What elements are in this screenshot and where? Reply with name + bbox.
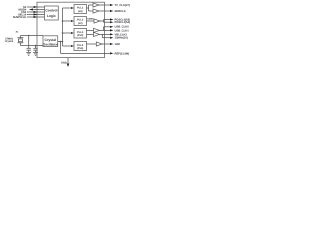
junction bus-PLL2: [62, 20, 64, 22]
buffer B1: [93, 3, 99, 7]
wire xtal lower: [21, 45, 44, 47]
wire ref riser: [60, 42, 62, 54]
arrow out row5: [110, 26, 113, 28]
arrow into PLL1: [71, 7, 74, 9]
control logic box U1: [45, 6, 59, 20]
ground for C1: [26, 51, 31, 53]
arrow out row7: [110, 33, 113, 35]
svg-text:GND: GND: [61, 61, 67, 64]
wire bus to PLL1: [63, 7, 73, 9]
buffer B6: [96, 42, 102, 46]
wire input SEL: [27, 14, 45, 16]
capacitor C2 lead: [35, 46, 37, 49]
PLL3 box: [74, 29, 87, 39]
wire xtal upper: [21, 35, 44, 37]
junction bus-PLL3: [62, 32, 64, 34]
svg-text:12M: 12M: [115, 43, 121, 46]
crystal oscillator box: [43, 36, 58, 47]
wire input FS0: [27, 11, 45, 13]
svg-text:Oscillator: Oscillator: [43, 42, 59, 46]
capacitor C2 plates: [33, 47, 37, 49]
arrow out row2: [110, 10, 113, 12]
capacitor C2 lower lead: [35, 50, 37, 52]
wire PLL1 out stub: [87, 7, 89, 9]
svg-text:54MHz: 54MHz: [87, 17, 95, 20]
text labels: [5, 4, 130, 65]
wire PLL1 split: [88, 5, 90, 11]
buffer B4: [94, 28, 100, 32]
PLL1 box: [74, 5, 87, 14]
junction ref-tap: [60, 41, 62, 43]
PLL2 box: [74, 17, 87, 26]
arrow out MOD: [30, 8, 33, 10]
wire PLL4 out: [87, 43, 97, 45]
svg-text:SUSP/CLK: SUSP/CLK: [13, 16, 27, 19]
arrow out row3: [110, 18, 113, 20]
chip boundary: [37, 2, 105, 57]
wire PLL3 out b: [87, 33, 94, 35]
crystal X1 leads: [19, 36, 21, 38]
PLL4 box: [74, 42, 87, 51]
arrow out row10: [110, 52, 113, 54]
svg-text:(Px4): (Px4): [77, 47, 83, 50]
wire buffer3 out + split: [100, 20, 104, 22]
crystal X1 body: [18, 39, 22, 42]
ground for C2: [33, 51, 38, 53]
svg-text:(x2): (x2): [78, 22, 83, 25]
arrow out row6: [110, 29, 113, 31]
wire osc output to bus: [58, 41, 63, 43]
buffer triangles: [93, 3, 102, 46]
wire PLL3 out a: [87, 29, 94, 31]
wire REF out: [61, 52, 112, 54]
arrow into chip SEL: [34, 13, 37, 15]
svg-text:Crystal: Crystal: [5, 40, 14, 43]
svg-text:USB_CLK1: USB_CLK1: [115, 29, 130, 32]
buffer B3: [94, 19, 100, 23]
crystal X1 plates: [17, 37, 23, 39]
wire bus to PLL3: [63, 32, 73, 34]
bus vertical: [62, 8, 64, 46]
capacitor C1 lead: [28, 36, 30, 49]
wire bus to PLL4: [63, 45, 73, 47]
wire buffer1 out: [99, 4, 111, 6]
capacitor C1 lower lead: [28, 50, 30, 52]
junction C1 tap: [28, 35, 30, 37]
arrow GND down: [67, 64, 70, 68]
arrow into PLL2: [71, 20, 74, 22]
svg-text:13MHz(10): 13MHz(10): [115, 37, 128, 40]
arrow into chip S0: [34, 6, 37, 8]
buffer B2: [93, 9, 99, 13]
capacitor C1 plates: [27, 47, 31, 49]
wire GND stub: [67, 58, 69, 64]
svg-text:X1: X1: [16, 30, 19, 33]
svg-text:(Px3): (Px3): [77, 34, 83, 37]
wire PLL2 out: [87, 20, 95, 22]
arrow into chip SUSP: [34, 16, 37, 18]
wire input MOD (output arrow): [30, 9, 45, 11]
svg-text:USB_CLK0: USB_CLK0: [115, 26, 130, 29]
wire buffer6 out: [102, 43, 111, 45]
arrow out row1: [110, 4, 113, 6]
junction bus-osc: [62, 41, 64, 43]
svg-text:(x6): (x6): [78, 10, 83, 13]
junction C2 tap: [35, 45, 37, 47]
svg-text:POSCL1(54): POSCL1(54): [115, 21, 131, 24]
wire buffer5 out + split: [100, 33, 112, 35]
arrow into chip FS0: [34, 11, 37, 13]
svg-text:Control: Control: [45, 8, 57, 12]
wire buffer2 out: [99, 10, 111, 12]
arrow into PLL3: [71, 32, 74, 34]
wire buffer4 out + split: [100, 29, 112, 31]
buffer B5: [94, 32, 100, 36]
svg-text:TV_CLK(27): TV_CLK(27): [115, 4, 130, 7]
svg-text:SDRCLK: SDRCLK: [115, 10, 126, 13]
wire bus to PLL2: [63, 20, 73, 22]
wire input S0: [27, 6, 45, 8]
arrow out row8: [110, 37, 113, 39]
arrow out row9: [110, 43, 113, 45]
arrow into PLL4: [71, 45, 74, 47]
arrow out row4: [110, 21, 113, 23]
arrowheads: [30, 4, 114, 67]
svg-text:REF(13.5M): REF(13.5M): [115, 52, 130, 55]
svg-text:Logic: Logic: [47, 14, 56, 18]
wire input SUSP: [27, 16, 45, 18]
